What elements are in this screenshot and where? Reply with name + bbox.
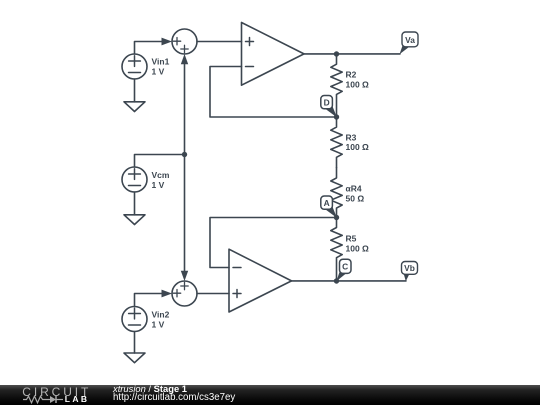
junction dot node D [334, 114, 339, 119]
svg-text:100 Ω: 100 Ω [346, 79, 370, 89]
logo schematic glyph (resistor + diode) [23, 394, 69, 405]
svg-text:Vin2: Vin2 [152, 310, 170, 320]
R2 value label [346, 70, 370, 90]
svg-text:Vin1: Vin1 [152, 57, 170, 67]
wire Vcm to bus [135, 155, 185, 168]
wire Vin1 to summer S1 [135, 42, 163, 55]
arrowhead into S2 from left [162, 290, 173, 298]
svg-text:Va: Va [405, 35, 415, 45]
arrowhead into S1 from below [181, 54, 188, 64]
svg-text:1 V: 1 V [152, 320, 165, 330]
wire Vin2 to summer S2 [135, 294, 163, 307]
logo LAB text [65, 395, 90, 404]
svg-text:A: A [324, 198, 330, 208]
svg-text:αR4: αR4 [346, 184, 362, 194]
wire feedback node A to U2 - input [210, 218, 337, 268]
svg-text:1 V: 1 V [152, 180, 165, 190]
footer bar [0, 385, 540, 405]
wire feedback node D to U1 - input [210, 67, 337, 118]
summer S1 [172, 29, 197, 54]
svg-text:1 V: 1 V [152, 67, 165, 77]
voltage source Vin2 [122, 307, 147, 332]
R5 value label [346, 234, 370, 254]
wire S1 to op-amp U1 + input [197, 41, 242, 43]
svg-text:Vb: Vb [404, 263, 415, 273]
aR4 value label [346, 184, 365, 204]
op-amp U2 [229, 249, 292, 312]
Vin1 value label [152, 57, 170, 77]
ground below Vin1 [124, 102, 145, 112]
Vcm value label [152, 170, 170, 190]
svg-text:Vcm: Vcm [152, 170, 170, 180]
footer url text [113, 393, 235, 403]
wire U1 output to Va [304, 53, 400, 55]
flag C [336, 259, 351, 281]
resistor aR4 [331, 168, 342, 218]
junction dot node C [334, 278, 339, 283]
svg-text:R5: R5 [346, 234, 357, 244]
resistor R3 [331, 117, 342, 168]
wire S2 to U2 + input [197, 293, 229, 295]
svg-text:D: D [324, 97, 330, 107]
Vin2 value label [152, 310, 170, 330]
vertical bus wire S1 to S2 [184, 63, 186, 272]
junction dot node A [334, 215, 339, 220]
svg-text:50 Ω: 50 Ω [346, 193, 365, 203]
svg-text:100 Ω: 100 Ω [346, 142, 370, 152]
svg-text:100 Ω: 100 Ω [346, 244, 370, 254]
R3 value label [346, 132, 370, 152]
svg-text:R2: R2 [346, 70, 357, 80]
svg-text:R3: R3 [346, 132, 357, 142]
flag A [321, 196, 337, 218]
flag D [321, 96, 337, 118]
resistor R5 [331, 218, 342, 282]
arrowhead into S2 from above [181, 271, 188, 281]
wire Vin2 to ground [134, 332, 136, 354]
voltage source Vcm [122, 167, 147, 192]
wire U2 output to Vb [292, 280, 407, 282]
junction dot Vcm bus [182, 152, 187, 157]
resistor R2 [331, 54, 342, 117]
CircuitLab logo wordmark [22, 386, 91, 398]
op-amp U1 [242, 23, 305, 86]
junction dot U1 output / R2 [334, 51, 339, 56]
flag Vb [402, 262, 418, 282]
footer title text [113, 384, 187, 394]
svg-text:C: C [342, 262, 348, 272]
wire Vin1 to ground [134, 79, 136, 102]
flag Va [400, 32, 419, 54]
ground below Vin2 [124, 353, 145, 363]
wire Vcm to ground [134, 192, 136, 215]
voltage source Vin1 [122, 54, 147, 79]
summer S2 [172, 281, 197, 306]
ground below Vcm [124, 215, 145, 225]
arrowhead into S1 from left [162, 38, 173, 46]
